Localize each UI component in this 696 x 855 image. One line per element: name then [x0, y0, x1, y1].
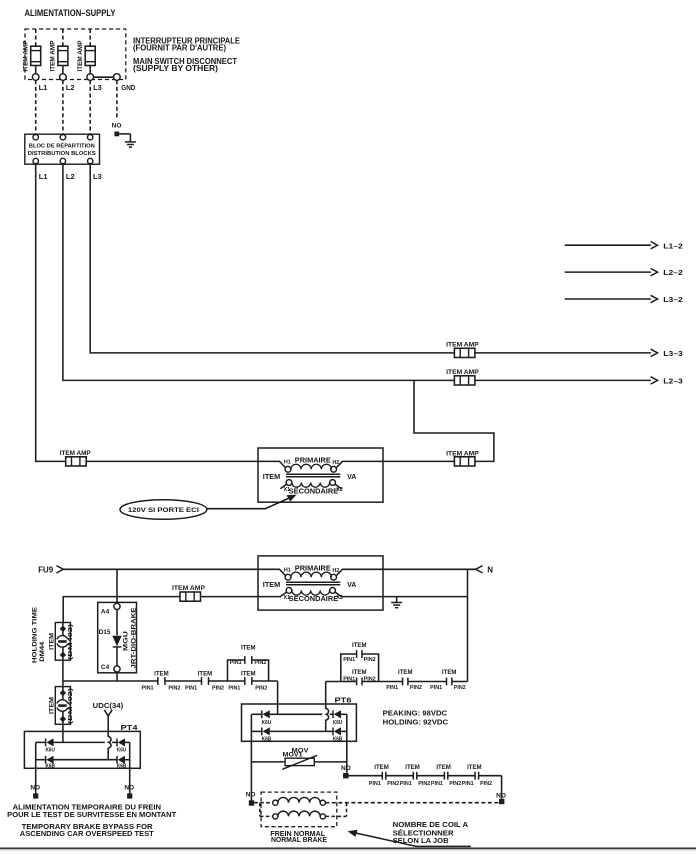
wire L3-3 — [475, 352, 651, 354]
svg-text:SECONDAIRE: SECONDAIRE — [289, 596, 339, 603]
arrow note to coil box — [355, 833, 471, 847]
svg-text:DM44: DM44 — [39, 641, 46, 662]
svg-text:H1: H1 — [284, 567, 291, 573]
svg-text:PIN2: PIN2 — [418, 781, 430, 787]
terminal A4 — [114, 603, 120, 609]
svg-text:NOMBRE DE COIL A: NOMBRE DE COIL A — [393, 820, 469, 829]
contact ITEM #A (right group) — [357, 678, 362, 686]
svg-text:K6U: K6U — [333, 720, 343, 726]
arrowhead — [651, 349, 658, 356]
rectifier PT6 — [242, 704, 357, 741]
svg-text:K6U: K6U — [262, 720, 272, 726]
svg-text:L3–2: L3–2 — [663, 295, 683, 304]
svg-text:PIN1: PIN1 — [386, 685, 398, 691]
primary winding — [291, 464, 332, 469]
svg-text:PIN2: PIN2 — [364, 657, 376, 663]
svg-text:PIN2: PIN2 — [364, 677, 376, 683]
wire supply drop L2 (dashed) — [62, 29, 64, 46]
svg-text:ITEM: ITEM — [263, 474, 281, 481]
core — [286, 473, 340, 475]
svg-text:PIN1: PIN1 — [343, 657, 355, 663]
varistor diagonal — [282, 755, 317, 769]
contact ITEM #4 (brake coil row) — [475, 772, 479, 780]
svg-text:ITEM: ITEM — [467, 765, 482, 771]
terminal circle GND — [114, 74, 121, 81]
svg-text:ITEM: ITEM — [352, 670, 367, 676]
svg-text:PIN2: PIN2 — [449, 781, 461, 787]
callout ellipse 120V SI PORTE ECI — [120, 500, 207, 520]
wire fuse L2 to terminal — [62, 66, 64, 74]
wire L2-3 — [475, 379, 651, 381]
svg-text:NO: NO — [246, 791, 256, 798]
svg-text:L2: L2 — [66, 172, 75, 181]
primary lead-in — [258, 569, 285, 575]
contact ITEM #1 (left group) — [158, 677, 165, 685]
wire L2 dashed drop — [62, 80, 64, 134]
wire transformer T1 primary return to L2 — [414, 380, 494, 461]
svg-text:K6B: K6B — [333, 737, 343, 743]
svg-text:K6U: K6U — [117, 748, 127, 754]
svg-text:H2: H2 — [332, 568, 339, 574]
rectifier PT4 — [24, 731, 140, 768]
svg-text:NORMAL BRAKE: NORMAL BRAKE — [271, 835, 327, 844]
PT6 left bus (DC-) — [251, 713, 261, 715]
svg-text:D15: D15 — [99, 629, 111, 636]
connector arrow N — [476, 566, 483, 573]
wire T2 H2 to N — [383, 568, 476, 570]
block top terminal — [88, 135, 93, 140]
svg-text:GND: GND — [121, 83, 135, 92]
arrowhead — [651, 242, 658, 249]
diode module MGU JRT-DIO-BRAKE — [98, 602, 137, 672]
arrowhead — [651, 377, 658, 384]
svg-text:L2–3: L2–3 — [663, 377, 683, 386]
wire L2 feeder to row L2-3 — [63, 164, 455, 381]
element body circle — [57, 700, 69, 712]
svg-text:PIN2: PIN2 — [168, 685, 180, 691]
svg-text:L1–2: L1–2 — [663, 241, 683, 250]
svg-text:ITEM: ITEM — [241, 672, 256, 678]
svg-text:PIN1: PIN1 — [142, 685, 154, 691]
wire MOV to DC+ — [314, 761, 347, 763]
wire T2 X1 to DM44 circuit — [63, 597, 180, 623]
svg-text:H2: H2 — [332, 460, 339, 466]
internal wire — [62, 687, 64, 725]
terminal C4 — [114, 666, 120, 672]
svg-text:PIN2: PIN2 — [410, 685, 422, 691]
svg-text:UDC(34): UDC(34) — [93, 701, 124, 710]
ground symbol (supply) — [125, 142, 136, 147]
PT4 left bus (DC-) — [36, 741, 46, 743]
svg-text:ITEM: ITEM — [50, 633, 56, 650]
contact ITEM bypass (left group) — [245, 656, 252, 664]
wire DM44#1 to brake row — [62, 660, 64, 681]
wire bottom contact row — [349, 775, 383, 777]
wire fuse L1 to terminal — [35, 66, 37, 74]
svg-text:NO: NO — [30, 785, 40, 792]
terminal X1 — [286, 480, 292, 486]
svg-text:L2–2: L2–2 — [663, 268, 683, 277]
wire left group to PT6 AC1 — [277, 681, 279, 714]
svg-text:ITEM AMP: ITEM AMP — [50, 41, 57, 72]
svg-text:(FOURNIT PAR D'AUTRE): (FOURNIT PAR D'AUTRE) — [133, 44, 226, 53]
wire row end down to NO — [501, 776, 503, 799]
diode D15 — [112, 636, 121, 646]
terminal diamond (bottom) — [60, 716, 66, 722]
svg-text:PRIMAIRE: PRIMAIRE — [295, 565, 331, 572]
svg-text:PIN2: PIN2 — [254, 660, 266, 666]
coil terminal — [320, 800, 325, 805]
contact ITEM #2 (left group) — [202, 677, 209, 685]
arrowhead — [651, 268, 658, 275]
terminal circle L1 — [32, 74, 39, 81]
svg-text:L1: L1 — [39, 172, 48, 181]
svg-text:PIN2: PIN2 — [454, 685, 466, 691]
svg-text:ITEM: ITEM — [154, 672, 169, 678]
terminal diamond (top) — [60, 626, 66, 632]
svg-text:ITEM AMP: ITEM AMP — [60, 450, 92, 457]
svg-text:K6U: K6U — [45, 748, 55, 754]
svg-text:K6B: K6B — [262, 737, 272, 743]
terminal diamond (top) — [60, 690, 66, 696]
wire A4 to diode — [116, 610, 118, 636]
svg-text:DISTRIBUTION BLOCKS: DISTRIBUTION BLOCKS — [28, 151, 96, 157]
sheet border line — [0, 847, 696, 849]
svg-text:PRIMAIRE: PRIMAIRE — [295, 457, 331, 464]
svg-text:ITEM: ITEM — [263, 582, 281, 589]
wire UDC to PT4 AC2 (with crossover hop) — [108, 716, 111, 760]
wire brake contact row (left group) — [63, 680, 158, 682]
svg-text:ITEM AMP: ITEM AMP — [172, 585, 206, 592]
secondary leads — [258, 592, 286, 596]
wire FU9 branch to MGU diode A4 — [116, 569, 118, 603]
svg-text:MOV1: MOV1 — [283, 752, 303, 759]
block bottom terminal — [88, 158, 93, 163]
svg-text:POUR LE TEST DE SURVITESSE EN: POUR LE TEST DE SURVITESSE EN MONTANT — [7, 810, 176, 819]
svg-text:ITEM AMP: ITEM AMP — [446, 341, 479, 348]
svg-text:ITEM AMP: ITEM AMP — [22, 41, 29, 72]
terminal X2 — [330, 588, 336, 594]
terminal H2 — [331, 466, 337, 472]
wire ground stub (T2 secondary) — [396, 597, 398, 603]
svg-text:PIN1: PIN1 — [430, 685, 442, 691]
svg-text:120V SI PORTE ECI: 120V SI PORTE ECI — [128, 507, 199, 514]
svg-text:NO: NO — [341, 765, 351, 772]
wire DM44#2 to PT4 — [62, 724, 64, 742]
wire supply drop L3 (dashed) — [89, 29, 91, 46]
svg-text:PIN1: PIN1 — [462, 781, 474, 787]
wire brake row to DM44#2 — [62, 681, 64, 687]
wire NO square to ground — [119, 133, 130, 135]
wire brake contact row (right group) — [326, 681, 357, 683]
terminal diamond (bottom) — [60, 652, 66, 658]
diode K6U (PT6 row1 right) — [333, 710, 341, 718]
diode K6B (PT6 row2 right) — [333, 727, 341, 735]
wire supply drop L1 (dashed) — [35, 29, 37, 46]
coil terminal — [273, 800, 278, 805]
main switch disconnect dashed enclosure — [25, 29, 126, 80]
svg-text:(DM402): (DM402) — [68, 688, 74, 724]
coil terminal — [273, 814, 278, 819]
PT6 row2 mid wire — [270, 730, 333, 732]
svg-text:A4: A4 — [101, 609, 110, 616]
svg-text:ITEM AMP: ITEM AMP — [77, 41, 84, 72]
contact ITEM bypass (right group) — [357, 650, 362, 658]
secondary winding — [292, 590, 330, 595]
svg-text:PIN1: PIN1 — [369, 781, 381, 787]
svg-text:PT6: PT6 — [335, 695, 352, 704]
svg-text:ITEM: ITEM — [374, 765, 389, 771]
contact ITEM #2 (brake coil row) — [413, 772, 417, 780]
svg-text:PT4: PT4 — [121, 723, 139, 732]
wire FU9 to T2 — [63, 568, 258, 570]
svg-text:H1: H1 — [284, 459, 291, 465]
terminal H1 — [285, 466, 291, 472]
fuse ITEM AMP L2 — [58, 46, 68, 65]
bypass contact loop (left group) — [228, 660, 245, 681]
wire L3 terminal to GND terminal — [94, 76, 114, 78]
svg-text:PIN2: PIN2 — [212, 685, 224, 691]
wire takeoff L3&#8211;2 — [565, 298, 651, 300]
coil terminal — [320, 814, 325, 819]
diode K6B (PT4 row2 right) — [117, 756, 125, 764]
svg-text:L3–3: L3–3 — [663, 349, 683, 358]
timer component DM44 #1 — [55, 623, 70, 661]
wire L3 feeder to row L3-3 — [90, 164, 454, 353]
terminal X1 — [286, 588, 292, 594]
PT6 row1 mid wire — [270, 713, 323, 715]
wire right group to PT6 AC2 (with crossover hop) — [326, 682, 329, 732]
wire N branch vertical — [467, 569, 469, 681]
svg-text:(DM402): (DM402) — [68, 624, 74, 660]
svg-text:N: N — [487, 565, 493, 574]
svg-text:PIN2: PIN2 — [255, 685, 267, 691]
svg-text:BLOC DE RÉPARTITION: BLOC DE RÉPARTITION — [29, 141, 95, 149]
fuse ITEM AMP L3 — [85, 46, 95, 65]
svg-text:NO: NO — [496, 792, 506, 799]
contact ITEM #1 (brake coil row) — [382, 772, 386, 780]
svg-text:PIN1: PIN1 — [230, 660, 242, 666]
connector Y UDC(34) — [104, 710, 112, 716]
fuse ITEM AMP L1 — [31, 46, 41, 65]
svg-text:ITEM: ITEM — [352, 643, 367, 649]
ground symbol (T2 secondary) — [391, 603, 402, 608]
svg-text:K6B: K6B — [117, 764, 127, 770]
svg-text:PIN1: PIN1 — [185, 685, 197, 691]
arrowhead — [651, 295, 658, 302]
transformer T1 (PRIMAIRE/SECONDAIRE) — [258, 448, 383, 502]
diode K6U (PT4 row1 right) — [117, 738, 125, 746]
wire L3 dashed drop — [89, 80, 91, 134]
wire takeoff L1&#8211;2 — [565, 244, 651, 246]
brake coil dashed enclosure FREIN NORMAL — [261, 792, 337, 827]
wire L1 dashed drop — [35, 80, 37, 134]
terminal circle L2 — [60, 74, 67, 81]
secondary leads — [280, 484, 286, 488]
terminal square NO — [114, 132, 119, 137]
svg-text:FU9: FU9 — [38, 565, 54, 574]
svg-text:K6B: K6B — [45, 764, 55, 770]
connector arrow FU9 — [56, 566, 63, 573]
wire DC- to MOV — [251, 761, 285, 763]
primary winding — [291, 572, 332, 577]
block top terminal — [33, 135, 38, 140]
wire diode to C4 — [116, 647, 118, 666]
svg-text:L3: L3 — [93, 172, 102, 181]
contact ITEM #3 (brake coil row) — [444, 772, 447, 780]
PT4 row1 mid wire — [54, 741, 105, 743]
wire fuse to T1 H1 — [86, 460, 258, 462]
internal wire — [62, 623, 64, 661]
terminal circle L3 — [87, 74, 94, 81]
wire fuse to T2 X1 — [201, 596, 259, 598]
svg-text:NO: NO — [124, 785, 134, 792]
svg-text:ITEM: ITEM — [50, 697, 56, 714]
svg-text:PIN2: PIN2 — [387, 781, 399, 787]
svg-text:ITEM: ITEM — [436, 765, 451, 771]
primary lead-in — [258, 461, 285, 467]
wire GND dashed drop — [116, 80, 118, 118]
block bottom terminal — [60, 158, 65, 163]
secondary winding — [292, 483, 330, 488]
diode K6U (PT6 row1 left) — [262, 710, 270, 718]
svg-text:C4: C4 — [101, 664, 110, 671]
wire L1 feeder — [36, 164, 66, 462]
wire fuse L3 to terminal — [89, 66, 91, 74]
svg-text:L3: L3 — [93, 83, 102, 92]
svg-text:ITEM: ITEM — [198, 672, 213, 678]
svg-text:ITEM: ITEM — [405, 765, 420, 771]
svg-text:PIN1: PIN1 — [431, 781, 443, 787]
svg-text:L2: L2 — [66, 83, 75, 92]
svg-text:PIN1: PIN1 — [228, 685, 240, 691]
wire takeoff L2&#8211;2 — [565, 271, 651, 273]
svg-text:(SUPPLY BY OTHER): (SUPPLY BY OTHER) — [133, 64, 218, 73]
core — [286, 581, 340, 583]
svg-text:SECONDAIRE: SECONDAIRE — [289, 488, 339, 495]
bypass contact loop (right group) — [341, 654, 357, 682]
element body circle — [57, 636, 69, 648]
wire C4 to brake row — [116, 672, 118, 681]
terminal square NO (PT4 DC-) — [33, 793, 38, 798]
contact ITEM #C (right group) — [447, 678, 452, 686]
wire T2 X2 to N branch — [383, 596, 468, 598]
svg-text:ALIMENTATION–SUPPLY: ALIMENTATION–SUPPLY — [25, 8, 116, 18]
svg-text:HOLDING: 92VDC: HOLDING: 92VDC — [383, 717, 449, 726]
PT4 right bus (DC+) — [125, 741, 130, 743]
terminal square NO (coil return) — [499, 799, 504, 804]
timer component DM44 #2 — [55, 687, 70, 725]
terminal X2 — [330, 480, 336, 486]
dashed coil wiring — [254, 802, 273, 804]
diode K6U (PT4 row1 left) — [46, 738, 54, 746]
svg-text:PIN1: PIN1 — [400, 781, 412, 787]
svg-text:ITEM: ITEM — [398, 670, 413, 676]
svg-text:VA: VA — [347, 474, 356, 481]
svg-text:ITEM: ITEM — [241, 645, 256, 651]
block top terminal — [60, 135, 65, 140]
terminal square NO (PT6 DC+) — [343, 773, 348, 778]
contact ITEM #3 (left group) — [245, 677, 252, 685]
block bottom terminal — [33, 158, 38, 163]
terminal square NO (PT6 DC-) — [249, 800, 254, 805]
terminal H2 — [331, 574, 337, 580]
svg-text:ITEM AMP: ITEM AMP — [446, 369, 479, 376]
svg-text:MGU: MGU — [122, 631, 129, 651]
distribution block BLOC DE REPARTITION — [25, 134, 100, 164]
svg-text:PIN2: PIN2 — [480, 781, 492, 787]
PT6 right bus (DC+) — [341, 713, 347, 715]
diode K6B (PT6 row2 left) — [262, 727, 270, 735]
wire T1 H2 to fuse — [383, 460, 454, 462]
svg-text:PIN1: PIN1 — [343, 677, 355, 683]
PT4 row2 mid wire — [54, 759, 117, 761]
svg-text:PEAKING: 98VDC: PEAKING: 98VDC — [383, 708, 448, 717]
terminal H1 — [285, 574, 291, 580]
transformer T2 (brake supply) — [258, 556, 383, 610]
contact ITEM #B (right group) — [403, 678, 408, 686]
callout arrow to T1 secondary — [207, 497, 292, 509]
svg-text:L1: L1 — [39, 83, 48, 92]
diode K6B (PT4 row2 left) — [46, 756, 54, 764]
svg-text:HOLDING TIME: HOLDING TIME — [32, 606, 39, 663]
svg-text:NO: NO — [112, 122, 122, 129]
svg-text:ASCENDING CAR OVERSPEED TEST: ASCENDING CAR OVERSPEED TEST — [20, 829, 154, 838]
terminal square NO (PT4 DC+) — [127, 793, 132, 798]
svg-text:VA: VA — [347, 582, 356, 589]
svg-text:JRT-DIO-BRAKE: JRT-DIO-BRAKE — [130, 608, 137, 669]
svg-text:ITEM: ITEM — [442, 670, 457, 676]
